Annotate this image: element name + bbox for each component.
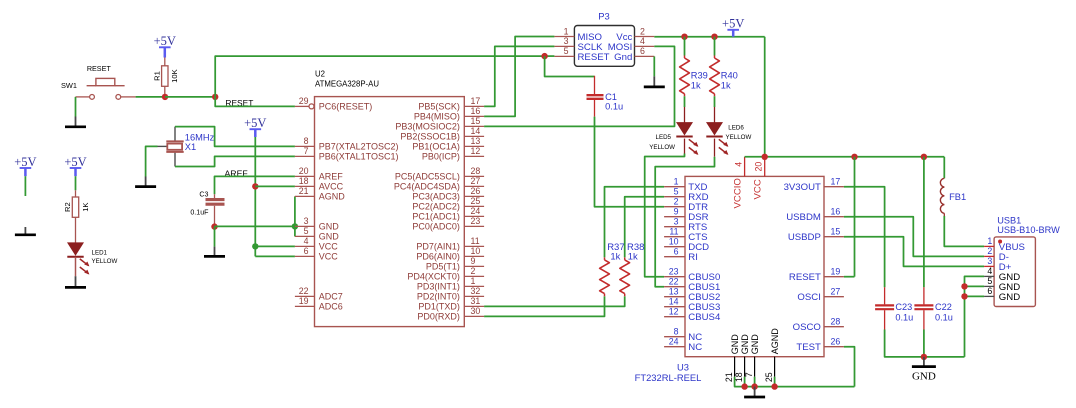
svg-text:25: 25	[471, 196, 481, 206]
svg-text:AGND: AGND	[319, 192, 346, 202]
svg-text:U3: U3	[677, 362, 689, 373]
svg-text:21: 21	[724, 372, 734, 382]
USB1 pin 3 D+	[984, 265, 994, 267]
svg-text:PB3(MOSIOC2): PB3(MOSIOC2)	[395, 122, 460, 132]
U2 pin 30 PD0(RXD)	[464, 315, 484, 317]
U2 pin 5 GND	[295, 235, 315, 237]
svg-text:AGND: AGND	[770, 328, 780, 355]
svg-text:PC5(ADC5SCL): PC5(ADC5SCL)	[395, 172, 460, 182]
svg-text:1: 1	[674, 177, 679, 187]
svg-text:9: 9	[674, 207, 679, 217]
svg-text:PD0(RXD): PD0(RXD)	[417, 312, 460, 322]
U3 pin 20 VCC	[764, 160, 766, 176]
svg-text:NC: NC	[688, 342, 702, 353]
svg-text:28: 28	[471, 166, 481, 176]
svg-text:23: 23	[669, 267, 679, 277]
svg-text:R2: R2	[63, 202, 72, 212]
wire to U2 VCC pin6	[255, 255, 295, 257]
U3 pin 28 OSCO	[824, 326, 844, 328]
junction C3 bottom	[211, 223, 217, 229]
U3 pin 2 DTR	[664, 206, 685, 208]
svg-text:17: 17	[471, 96, 481, 106]
U3 pin 12 CBUS4	[664, 316, 685, 318]
U2 pin 31 PD1(TXD)	[464, 305, 484, 307]
resistor R1 10K	[164, 58, 166, 66]
U2 pin 12 PB0(ICP)	[464, 155, 484, 157]
svg-text:10: 10	[471, 246, 481, 256]
svg-text:VCC: VCC	[752, 179, 763, 199]
crystal X1 16MHz	[174, 127, 176, 141]
resistor R38 1k	[624, 294, 626, 297]
svg-text:1: 1	[471, 276, 476, 286]
svg-text:0.1u: 0.1u	[935, 312, 953, 322]
P3 pin 1 MISO	[554, 36, 574, 38]
svg-text:0.1uF: 0.1uF	[190, 208, 209, 216]
ground below SW1	[75, 117, 77, 127]
svg-text:FT232RL-REEL: FT232RL-REEL	[635, 372, 702, 383]
wire AREF to U2 pin20	[215, 176, 295, 194]
U3 pin 18 GND	[744, 357, 746, 377]
svg-text:PD5(T1): PD5(T1)	[426, 262, 460, 272]
svg-text:YELLOW: YELLOW	[649, 144, 675, 151]
U3 pin 13 CBUS2	[664, 296, 685, 298]
wire RESET node down to U2 pin29	[215, 97, 295, 107]
svg-text:C23: C23	[895, 302, 912, 312]
svg-text:1: 1	[564, 26, 569, 36]
svg-text:32: 32	[471, 286, 481, 296]
wire +5V rail down to U3 VCC	[764, 37, 766, 157]
svg-text:TEST: TEST	[796, 342, 821, 353]
ground (below far-left +5V)	[24, 227, 26, 235]
wire P3 RESET	[545, 55, 555, 57]
svg-text:ADC6: ADC6	[319, 302, 343, 312]
wire crystal case to ground	[146, 146, 158, 176]
svg-text:PB6(XTAL1TOSC1): PB6(XTAL1TOSC1)	[319, 152, 399, 162]
svg-text:1: 1	[987, 236, 992, 246]
wire C3 to U2 GND pin3	[215, 225, 295, 227]
svg-text:0.1u: 0.1u	[605, 101, 623, 111]
svg-text:PC4(ADC4SDA): PC4(ADC4SDA)	[394, 182, 460, 192]
svg-text:Gnd: Gnd	[614, 52, 632, 63]
wire U3 TEST to ground rail	[844, 347, 855, 387]
U3 pin 7 GND	[754, 357, 756, 377]
U2 pin 13 PB1(OC1A)	[464, 145, 484, 147]
wire SW1 to R1 junction	[136, 96, 165, 98]
U3 pin 25 AGND	[774, 357, 776, 377]
P3 pin 2 Vcc	[635, 36, 655, 38]
svg-text:7: 7	[304, 146, 309, 156]
U2 pin 22 ADC7	[295, 295, 315, 297]
svg-text:R1: R1	[152, 71, 161, 81]
wire ground rail up to USB GND pins	[965, 276, 985, 357]
wire U2 PD0 to R37	[484, 296, 604, 316]
svg-text:PD6(AIN0): PD6(AIN0)	[416, 252, 460, 262]
svg-text:R40: R40	[721, 71, 738, 81]
svg-text:PB2(SSOC1B): PB2(SSOC1B)	[400, 132, 460, 142]
svg-text:15: 15	[471, 116, 481, 126]
wire C22 to ground rail	[923, 330, 925, 357]
svg-text:C3: C3	[199, 191, 208, 199]
U3 pin 3 RTS	[664, 226, 685, 228]
wire U2 pin16 MISO to P3 MISO	[484, 37, 554, 117]
wire R38 to U3 RXD	[625, 197, 664, 258]
U3 pin 6 RI	[664, 256, 685, 258]
wire RESET to C1	[545, 56, 595, 76]
svg-text:GND: GND	[319, 222, 340, 232]
U2 pin 26 PC3(ADC3)	[464, 195, 484, 197]
junction ground rail C22	[921, 354, 927, 360]
svg-text:GND: GND	[999, 292, 1020, 303]
junction R39 top	[681, 34, 687, 40]
ground GND symbol bottom right	[923, 357, 925, 367]
svg-text:PC3(ADC3): PC3(ADC3)	[412, 192, 460, 202]
wire R37 to U3 TXD	[605, 187, 665, 258]
LED1 YELLOW	[68, 243, 83, 255]
USB1 pin1 marker	[998, 240, 1002, 244]
svg-text:5: 5	[564, 46, 569, 56]
svg-text:24: 24	[471, 206, 481, 216]
svg-text:8: 8	[674, 327, 679, 337]
ground below crystal	[145, 177, 147, 187]
U3 pin 9 DSR	[664, 216, 685, 218]
svg-text:22: 22	[299, 286, 309, 296]
junction GND 18	[741, 383, 747, 389]
svg-text:14: 14	[669, 297, 679, 307]
svg-text:+5V: +5V	[244, 116, 266, 130]
U2 pin 14 PB2(SSOC1B)	[464, 135, 484, 137]
svg-text:VCCIO: VCCIO	[732, 178, 743, 208]
svg-text:16: 16	[471, 106, 481, 116]
svg-text:C22: C22	[935, 302, 952, 312]
resistor R37 1k	[604, 294, 606, 297]
U2 pin 18 AVCC	[295, 185, 315, 187]
svg-text:+5V: +5V	[722, 17, 744, 31]
wire C22 top	[923, 157, 925, 287]
wire crystal top to U2 pin8	[175, 127, 295, 147]
svg-text:13: 13	[669, 287, 679, 297]
junction U3 VCC	[762, 154, 768, 160]
svg-text:R39: R39	[691, 71, 708, 81]
svg-text:PB7(XTAL2TOSC2): PB7(XTAL2TOSC2)	[319, 142, 399, 152]
wire U3 ground rail	[735, 377, 855, 387]
wire rail to U3 RESET pin19	[854, 157, 856, 277]
U2 pin 7 PB6(XTAL1TOSC1)	[295, 155, 315, 157]
wire U2 pin3 to pin5 and pin21 bracket	[294, 196, 296, 236]
svg-text:2: 2	[471, 266, 476, 276]
U2 pin 16 PB4(MISO)	[464, 115, 484, 117]
svg-text:25: 25	[764, 372, 774, 382]
svg-text:AVCC: AVCC	[319, 182, 344, 192]
svg-text:19: 19	[299, 296, 309, 306]
svg-text:30: 30	[471, 306, 481, 316]
wire SW1 left to ground	[75, 97, 77, 117]
svg-text:20: 20	[753, 162, 763, 172]
U3 pin 4 VCCIO	[744, 157, 746, 177]
junction USB GND6	[961, 293, 967, 299]
U2 pin 24 PC1(ADC1)	[464, 215, 484, 217]
junction C22 rail	[921, 154, 927, 160]
wire P3 Gnd down	[653, 56, 655, 76]
USB1 pin 2 D-	[984, 255, 994, 257]
wire C23 to ground rail	[885, 330, 965, 357]
wire RESET node up and right to P3 pin5	[215, 56, 544, 97]
svg-text:PC1(ADC1): PC1(ADC1)	[412, 212, 460, 222]
svg-text:2: 2	[987, 246, 992, 256]
svg-text:13: 13	[471, 136, 481, 146]
svg-text:18: 18	[299, 176, 309, 186]
U3 pin 27 OSCI	[824, 296, 844, 298]
capacitor C1 0.1u	[594, 76, 596, 94]
U2 pin 3 GND	[295, 225, 315, 227]
svg-text:PB0(ICP): PB0(ICP)	[422, 152, 460, 162]
ground below C3	[214, 247, 216, 257]
svg-text:ATMEGA328P-AU: ATMEGA328P-AU	[315, 80, 379, 89]
wire from +5V stub down	[24, 176, 26, 196]
svg-text:GND: GND	[319, 232, 340, 242]
svg-text:CBUS4: CBUS4	[688, 312, 721, 323]
wire VCC rail to FB1	[745, 156, 945, 158]
IC U3 FT232RL-REEL body	[685, 176, 824, 356]
svg-text:21: 21	[299, 186, 309, 196]
svg-text:PC6(RESET): PC6(RESET)	[319, 102, 373, 112]
wire R40 to LED6	[714, 96, 716, 107]
svg-text:29: 29	[299, 96, 309, 106]
U3 pin 21 GND	[734, 357, 736, 377]
wire R39 to LED5	[684, 96, 686, 107]
U3 pin 19 RESET	[824, 276, 844, 278]
U2 pin 20 AREF	[295, 175, 315, 177]
wire FB1 to USB VBUS	[944, 216, 984, 246]
U3 pin 5 RXD	[664, 196, 685, 198]
wire USBDP to USB D+	[844, 237, 984, 267]
U2 pin 32 PD2(INT0)	[464, 295, 484, 297]
U3 pin 26 TEST	[824, 346, 844, 348]
svg-text:PB5(SCK): PB5(SCK)	[418, 102, 460, 112]
junction AGND 25	[771, 383, 777, 389]
svg-text:X1: X1	[185, 142, 196, 152]
svg-text:11: 11	[471, 236, 480, 246]
svg-text:PD7(AIN1): PD7(AIN1)	[416, 242, 460, 252]
svg-text:LED6: LED6	[728, 125, 744, 132]
svg-text:USBDP: USBDP	[788, 232, 821, 243]
P3 pin 3 SCLK	[554, 45, 574, 47]
node RESET junction	[212, 94, 218, 100]
wire USBDM to USB D-	[844, 217, 984, 257]
svg-text:LED5: LED5	[656, 134, 672, 141]
wire P3 Vcc to +5V rail	[654, 36, 764, 38]
svg-text:PB1(OC1A): PB1(OC1A)	[412, 142, 460, 152]
U3 pin 10 DCD	[664, 246, 685, 248]
junction at R1 bottom	[162, 94, 168, 100]
svg-text:1k: 1k	[691, 80, 701, 90]
U2 pin 6 VCC	[295, 255, 315, 257]
connector USB1 USB-B10-BRW body	[994, 237, 1035, 307]
U2 pin 23 PC0(ADC0)	[464, 225, 484, 227]
svg-text:2: 2	[674, 197, 679, 207]
U3 pin 1 TXD	[664, 186, 685, 188]
wire LED5 to U3 CBUS0	[684, 139, 686, 154]
P3 pin 5 RESET	[554, 55, 574, 57]
IC U2 ATMEGA328P-AU body	[315, 97, 465, 327]
U3 pin 11 CTS	[664, 236, 685, 238]
svg-text:3: 3	[564, 36, 569, 46]
LED5 YELLOW	[684, 107, 686, 123]
resistor R2 1K	[75, 190, 77, 197]
svg-text:ADC7: ADC7	[319, 292, 343, 302]
svg-text:PD3(INT1): PD3(INT1)	[417, 282, 460, 292]
U3 pin 23 CBUS0	[664, 276, 685, 278]
U2 pin 28 PC5(ADC5SCL)	[464, 175, 484, 177]
svg-text:AREF: AREF	[319, 172, 344, 182]
svg-text:23: 23	[471, 216, 481, 226]
resistor R40 1k	[714, 37, 716, 56]
ground below LED1	[75, 276, 77, 287]
svg-text:YELLOW: YELLOW	[92, 258, 118, 265]
svg-text:26: 26	[471, 186, 481, 196]
svg-text:PD4(XCKT0): PD4(XCKT0)	[407, 272, 460, 282]
P3 pin 6 Gnd	[635, 55, 655, 57]
U2 pin 4 VCC	[295, 245, 315, 247]
U3 pin 15 USBDP	[824, 236, 844, 238]
U2 pin 15 PB3(MOSIOC2)	[464, 125, 484, 127]
svg-text:6: 6	[304, 246, 309, 256]
svg-text:15: 15	[831, 227, 841, 237]
svg-text:17: 17	[831, 177, 841, 187]
svg-text:0.1u: 0.1u	[895, 312, 913, 322]
svg-text:20: 20	[299, 166, 309, 176]
svg-text:5: 5	[304, 226, 309, 236]
U2 pin 1 PD3(INT1)	[464, 285, 484, 287]
svg-text:12: 12	[471, 146, 481, 156]
svg-text:LED1: LED1	[92, 249, 108, 256]
svg-text:U2: U2	[315, 70, 325, 79]
svg-text:YELLOW: YELLOW	[726, 134, 752, 141]
svg-text:GND: GND	[730, 334, 740, 355]
svg-text:OSCO: OSCO	[793, 322, 821, 333]
svg-text:10: 10	[669, 237, 679, 247]
U2 pin 19 ADC6	[295, 305, 315, 307]
USB1 pin 6 GND	[984, 295, 994, 297]
U2 pin 29 PC6(RESET)	[295, 105, 309, 107]
svg-text:22: 22	[669, 277, 679, 287]
U2 pin 21 AGND	[295, 195, 315, 197]
U2 pin 10 PD6(AIN0)	[464, 255, 484, 257]
svg-text:OSCI: OSCI	[797, 292, 820, 303]
resistor R39 1k	[684, 37, 686, 56]
svg-text:4: 4	[304, 236, 309, 246]
svg-text:PC2(ADC2): PC2(ADC2)	[412, 202, 460, 212]
ground below P3	[653, 76, 655, 87]
svg-text:PB4(MISO): PB4(MISO)	[414, 112, 460, 122]
junction USB GND5	[961, 283, 967, 289]
svg-text:18: 18	[734, 372, 744, 382]
U2 pin 9 PD5(T1)	[464, 265, 484, 267]
svg-text:+5V: +5V	[154, 34, 176, 48]
wire to U2 VCC pin4	[255, 245, 295, 247]
U3 pin 17 3V3OUT	[824, 186, 844, 188]
wire C3 bottom to ground	[214, 227, 216, 247]
svg-text:10K: 10K	[170, 69, 179, 83]
wire U2 pin17 SCK to P3 SCLK	[484, 46, 554, 106]
U2 pin 8 PB7(XTAL2TOSC2)	[295, 145, 315, 147]
USB1 pin 1 VBUS	[984, 245, 994, 247]
U3 pin 8 NC	[664, 336, 685, 338]
LED6 YELLOW	[714, 107, 716, 123]
wire +5V to R2	[75, 176, 77, 190]
svg-text:6: 6	[640, 46, 645, 56]
svg-text:SW1: SW1	[61, 81, 77, 90]
svg-text:5: 5	[987, 276, 992, 286]
U2 pin 11 PD7(AIN1)	[464, 245, 484, 247]
svg-text:9: 9	[471, 256, 476, 266]
svg-text:1k: 1k	[721, 80, 731, 90]
P3 pin 4 MOSI	[635, 45, 655, 47]
svg-text:USBDM: USBDM	[786, 212, 821, 223]
junction U2 GND pins	[292, 223, 298, 229]
svg-text:+5V: +5V	[64, 155, 86, 169]
junction GND 7	[751, 383, 757, 389]
U3 pin 24 NC	[664, 346, 685, 348]
svg-text:VCC: VCC	[319, 252, 339, 262]
U2 pin 25 PC2(ADC2)	[464, 205, 484, 207]
capacitor C22 0.1u	[923, 287, 925, 304]
capacitor C3 0.1uF	[214, 194, 216, 198]
svg-text:PC0(ADC0): PC0(ADC0)	[412, 222, 460, 232]
wire U2 pin15 MOSI to P3 MOSI	[484, 46, 674, 126]
svg-text:6: 6	[674, 247, 679, 257]
svg-text:7: 7	[744, 372, 754, 377]
svg-text:14: 14	[471, 126, 481, 136]
svg-text:16: 16	[831, 207, 841, 217]
wire C1 to U3 DTR	[595, 117, 665, 207]
svg-text:6: 6	[987, 286, 992, 296]
svg-text:24: 24	[669, 337, 679, 347]
wire +5V down to AVCC and VCC	[254, 137, 256, 256]
wire R1 junction to RESET node	[165, 96, 215, 98]
U3 pin 16 USBDM	[824, 216, 844, 218]
svg-text:RI: RI	[688, 252, 698, 263]
svg-text:VCC: VCC	[319, 242, 339, 252]
U3 pin 14 CBUS3	[664, 306, 685, 308]
svg-text:1k: 1k	[610, 252, 620, 263]
svg-text:5: 5	[674, 187, 679, 197]
svg-text:11: 11	[669, 227, 678, 237]
svg-text:3: 3	[304, 216, 309, 226]
wire crystal bottom to U2 pin7	[175, 156, 295, 166]
svg-text:26: 26	[831, 337, 841, 347]
wire U2 PD1 to R38	[484, 296, 625, 306]
svg-text:RESET: RESET	[87, 64, 112, 73]
junction VCC pin4	[252, 243, 258, 249]
svg-text:PD1(TXD): PD1(TXD)	[418, 302, 460, 312]
svg-text:+5V: +5V	[14, 155, 36, 169]
svg-text:4: 4	[733, 162, 743, 167]
wire to U2 AVCC pin18	[255, 185, 295, 187]
svg-text:GND: GND	[912, 371, 936, 383]
junction R40 top	[711, 34, 717, 40]
svg-text:19: 19	[831, 267, 841, 277]
svg-text:RESET: RESET	[578, 52, 610, 63]
ground below U3	[754, 387, 756, 397]
svg-text:3: 3	[987, 256, 992, 266]
inductor FB1	[943, 157, 945, 179]
svg-text:12: 12	[669, 307, 679, 317]
capacitor C23 0.1u	[884, 287, 886, 304]
svg-text:2: 2	[640, 26, 645, 36]
svg-text:1K: 1K	[81, 203, 90, 212]
svg-text:USB-B10-BRW: USB-B10-BRW	[997, 225, 1060, 235]
U2 pin 27 PC4(ADC4SDA)	[464, 185, 484, 187]
